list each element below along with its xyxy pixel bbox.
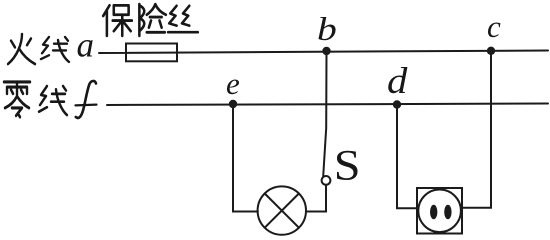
svg-text:b: b [317,11,337,47]
svg-text:e: e [226,66,240,101]
svg-text:d: d [387,61,408,102]
svg-text:c: c [487,9,501,44]
svg-text:S: S [334,141,361,189]
svg-text:a: a [77,26,95,65]
